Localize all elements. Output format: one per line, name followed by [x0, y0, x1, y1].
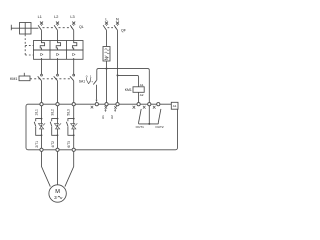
- svg-text:A2: A2: [140, 93, 144, 97]
- breaker QL pole 3: [70, 25, 73, 41]
- bypass contact phase 2: [50, 119, 57, 136]
- svg-text:SA1: SA1: [79, 80, 86, 84]
- wire T3 to motor: [65, 151, 74, 186]
- magnetic trip element boxes QL: [34, 50, 84, 59]
- breaker QF pole L: [103, 25, 106, 47]
- node L control: [105, 22, 108, 25]
- breaker QF pole N: [114, 25, 117, 103]
- svg-text:0: 0: [86, 75, 88, 79]
- svg-text:KM1: KM1: [125, 88, 132, 92]
- terminal circle 2/T1: [40, 148, 43, 151]
- breaker QL pole 1: [38, 25, 41, 41]
- junction on L wire: [106, 68, 108, 70]
- svg-text:L3: L3: [70, 15, 74, 19]
- arrow into unit A2: [115, 109, 116, 112]
- terminal circle A2 supply: [116, 103, 119, 106]
- mechanical linkage dashed QF: [108, 27, 116, 29]
- bypass contact phase 3: [66, 119, 73, 136]
- wire pole1 trip to contact: [41, 58, 43, 74]
- arrow into unit A1: [105, 109, 106, 112]
- selector switch SA1: [96, 70, 98, 80]
- thermal element pole 1: [40, 41, 44, 51]
- wire rail SA1 to OUT common: [97, 69, 150, 71]
- relay contact OUT1: [139, 109, 142, 124]
- wire OUT bottom rail: [139, 123, 159, 125]
- wire coil A2 to terminal: [138, 92, 140, 102]
- junction OUT rail: [148, 123, 150, 125]
- thermal element pole 3: [72, 41, 76, 51]
- wire rail N to coil A1: [118, 75, 139, 77]
- thermal overload element boxes QL: [34, 41, 84, 51]
- terminal circle A1 supply: [105, 103, 108, 106]
- node N control: [116, 22, 119, 25]
- contactor KM1 main contact 2: [57, 74, 59, 76]
- contactor KM1 coil box: [19, 76, 30, 81]
- relay contact OUT2: [158, 109, 161, 124]
- mechanical linkage dashed QL: [43, 27, 72, 29]
- svg-text:3/L2: 3/L2: [50, 109, 54, 116]
- terminal circle start input: [95, 103, 98, 106]
- soft starter enclosure A1: [26, 104, 178, 150]
- node L2: [56, 22, 59, 25]
- contactor coil KM1: [133, 87, 144, 93]
- wire mechanism to pole 1: [31, 27, 38, 29]
- clamp X OUT2 b: [153, 106, 156, 109]
- svg-text:QL: QL: [79, 25, 84, 29]
- triac phase 3: [71, 124, 76, 129]
- junction on N wire: [117, 74, 119, 76]
- svg-text:I>: I>: [56, 52, 60, 57]
- terminal circle OUT2 b: [157, 103, 160, 106]
- svg-text:A1: A1: [101, 115, 105, 119]
- clamp X supply A2: [114, 106, 117, 109]
- wire T1 to motor: [42, 151, 51, 186]
- svg-text:1: 1: [90, 75, 92, 79]
- terminal circle 5/L3: [72, 103, 75, 106]
- terminal circle 1/L1: [40, 103, 43, 106]
- svg-text:2/T1: 2/T1: [35, 141, 39, 148]
- wire pole3 trip to contact: [73, 58, 75, 74]
- svg-text:N: N: [116, 17, 119, 22]
- terminal A1 box: [171, 102, 178, 109]
- svg-text:OUT1: OUT1: [136, 125, 145, 129]
- bypass contact phase 1: [34, 119, 41, 136]
- wire left supply stub: [11, 25, 19, 31]
- thermal element pole 2: [56, 41, 60, 51]
- triac phase 2: [54, 124, 59, 129]
- wire OUT common down: [148, 106, 150, 124]
- svg-text:A1: A1: [140, 83, 144, 87]
- wire T2 to motor: [57, 151, 59, 185]
- svg-text:4/T2: 4/T2: [51, 141, 55, 148]
- phase 1 internals: wire and junctions: [41, 106, 43, 148]
- motor M1: [49, 185, 66, 202]
- svg-text:L: L: [105, 17, 108, 22]
- clamp X OUT common: [143, 106, 146, 109]
- svg-text:L1: L1: [38, 15, 42, 19]
- svg-text:I>: I>: [40, 52, 44, 57]
- breaker QL pole 2: [54, 25, 57, 41]
- terminal circle 3/L2: [56, 103, 59, 106]
- phase 3 internals: wire and junctions: [73, 106, 75, 148]
- node L3: [72, 22, 75, 25]
- mechanical linkage dashed to trip elements: [25, 35, 33, 56]
- wire pole2 trip to contact: [57, 58, 59, 74]
- clamp X supply A1: [105, 106, 108, 109]
- svg-text:1/L1: 1/L1: [34, 109, 38, 116]
- wire down to OUT1 common terminal: [148, 70, 150, 102]
- wire to coil A1: [138, 77, 140, 87]
- mechanical linkage dashed KM1: [30, 78, 72, 80]
- wire control L down: [106, 61, 108, 102]
- svg-text:5/L3: 5/L3: [67, 109, 71, 116]
- contactor KM1 main contact 1: [41, 74, 43, 76]
- terminal circle OUT common: [148, 103, 151, 106]
- svg-text:A1: A1: [173, 104, 177, 108]
- control supply unit box: [103, 47, 110, 62]
- svg-text:M: M: [55, 189, 60, 195]
- terminal circle 4/T2: [56, 148, 59, 151]
- svg-text:6/T3: 6/T3: [67, 141, 71, 148]
- clamp X start input: [91, 106, 94, 109]
- svg-text:OUT2: OUT2: [155, 125, 164, 129]
- node L1: [40, 22, 43, 25]
- svg-text:3: 3: [54, 195, 57, 200]
- contactor KM1 main contact 3: [73, 74, 75, 76]
- terminal circle OUT1 a: [137, 103, 140, 106]
- operating mechanism box of QL: [20, 23, 32, 35]
- svg-text:KM1: KM1: [10, 77, 17, 81]
- svg-text:QF: QF: [121, 28, 127, 32]
- svg-text:I>: I>: [72, 52, 76, 57]
- clamp X OUT1 a: [133, 106, 136, 109]
- svg-text:L2: L2: [54, 15, 58, 19]
- svg-text:A2: A2: [110, 115, 114, 119]
- terminal circle 6/T3: [72, 148, 75, 151]
- triac phase 1: [38, 124, 43, 129]
- phase 2 internals: wire and junctions: [57, 106, 59, 148]
